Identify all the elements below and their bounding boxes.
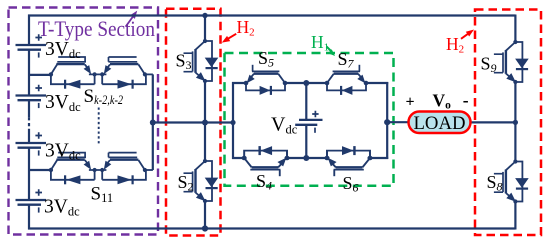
svg-text:T-Type Section: T-Type Section [38, 16, 155, 41]
node dot H-bridge bottom center [303, 155, 309, 161]
battery B2 3Vdc [16, 85, 47, 108]
ellipsis dotted line between T-type cells [98, 108, 100, 145]
bidirectional switch pair S11 [49, 153, 153, 185]
bidirectional switch pair Sk-2,k-2 [49, 57, 153, 89]
load LOAD [409, 112, 471, 134]
wire top bus [28, 14, 515, 16]
wire middle output bus [153, 121, 233, 123]
transistor S5 [244, 65, 288, 95]
wire left rail continuation (dash-dot) [28, 117, 30, 129]
wire H-bridge center column [305, 83, 307, 158]
wire H-bridge bottom rail segments [232, 157, 388, 159]
node dot LOAD / right leg [513, 120, 518, 125]
T-Type Section boundary (purple dashed box) [9, 8, 159, 235]
transistor S4 [242, 146, 290, 176]
wire H-bridge right rail [386, 82, 388, 159]
wire T-type output rail [152, 74, 154, 170]
wire H-bridge top rail segments [232, 82, 388, 84]
H1 boundary (green dashed box) [225, 53, 394, 186]
label + Vo - [406, 90, 469, 112]
wire LOAD to right leg [470, 121, 515, 123]
svg-text:-: - [463, 90, 469, 110]
transistor S7 [325, 65, 369, 95]
wire H-bridge left rail [232, 82, 234, 159]
battery B1 3Vdc [16, 34, 47, 57]
transistor S9 [494, 40, 529, 84]
transistor S8 [494, 159, 529, 203]
node dot T-output / middle bus [150, 120, 156, 126]
svg-text:LOAD: LOAD [414, 113, 466, 134]
battery B4 3Vdc [16, 189, 47, 212]
svg-text:+: + [406, 94, 415, 111]
wire H-bridge to LOAD [387, 121, 408, 123]
node dot S3-S2 midpoint [202, 120, 208, 126]
arrow from H2 left label to red box [222, 34, 236, 43]
node dot middle bus / H-bridge left rail [230, 120, 235, 125]
wire tap2 from dc-link [29, 169, 51, 171]
node dot top bus / S3 [202, 13, 207, 18]
H2 left boundary (red dashed box) [166, 9, 221, 236]
wire S3-S2 leg column [204, 15, 206, 230]
wire bottom bus [28, 227, 515, 229]
transistor S3 [184, 39, 219, 83]
battery B3 3Vdc [16, 132, 47, 155]
transistor S6 [324, 146, 372, 176]
wire left dc-link rail segments [28, 15, 30, 230]
arrow from H2 right label to red box [461, 30, 474, 39]
node dot H-bridge top center [303, 80, 309, 86]
H2 right boundary (red dashed box) [475, 10, 541, 236]
wire right leg column S9-S8 [514, 15, 516, 230]
node dot H-bridge right rail / LOAD [384, 119, 390, 125]
transistor S2 [184, 159, 219, 203]
capacitor Vdc [295, 111, 322, 133]
arrow from H1 label to green box [327, 47, 336, 57]
arrow from T-Type label to purple box [126, 11, 138, 27]
wire tap1 from dc-link [29, 74, 51, 76]
node dot bottom bus / S2 [202, 225, 208, 231]
